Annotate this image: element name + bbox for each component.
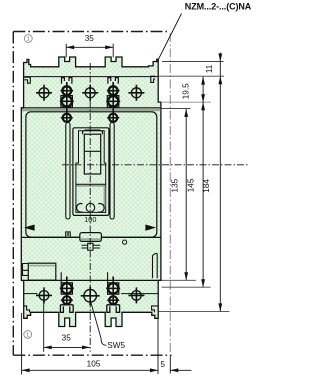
svg-text:105: 105: [87, 359, 101, 368]
top clamp bracket pole gap 1: [62, 78, 72, 84]
svg-text:135: 135: [170, 178, 179, 192]
escutcheon window bottom line: [76, 183, 106, 185]
terminal shroud edge line top: [24, 76, 159, 78]
extension line L2: [159, 75, 224, 77]
svg-text:35: 35: [85, 34, 95, 43]
svg-text:184: 184: [202, 179, 211, 193]
interlock box pole 2: [80, 233, 102, 242]
step line right of bottom right crosshair: [121, 293, 158, 295]
gray shading under window bottom: [77, 185, 106, 187]
dash-dot envelope border left: [12, 32, 14, 356]
escutcheon left rail: [66, 123, 70, 220]
dimension 19.5 and 145 vertical: [182, 77, 206, 288]
raised terminal shroud block left: [28, 263, 56, 280]
dimension 105 bottom: [22, 313, 158, 375]
step line left of bottom left crosshair: [24, 293, 38, 295]
type label NZM: [157, 2, 252, 63]
top terminal bracket right edge: [151, 76, 155, 82]
mounting crosshair pole 2 top: [82, 85, 98, 101]
top clamp bracket pole gap 2: [108, 78, 118, 84]
cover rounded rectangle: [26, 112, 157, 237]
gray shading band under cover step: [22, 109, 160, 111]
gray shading in shroud block: [30, 265, 55, 267]
extension line L4: [162, 279, 197, 281]
gray shading right of lower window: [104, 187, 106, 207]
extension line L6: [159, 310, 230, 312]
dash-dot envelope border bottom: [13, 354, 171, 356]
callout circle 1 bottom: [24, 331, 32, 339]
escutcheon right rail: [110, 123, 114, 220]
dimension 135 vertical: [170, 109, 188, 280]
frame bottom right arc: [98, 204, 104, 213]
clamp column 2 bottom: [106, 272, 120, 312]
lower terminal block top line: [21, 279, 161, 281]
dimension 35 top: [66, 34, 113, 57]
toggle handle mid line: [84, 150, 100, 152]
svg-text:1: 1: [26, 333, 29, 339]
mounting crosshair pole 1 bottom: [36, 287, 52, 303]
funnel terminal SW5 pole 2 bottom: [81, 286, 100, 305]
SW5 label and leader: [91, 302, 126, 350]
gray dash-dot line right side: [169, 33, 171, 355]
cover arrow marking left: [24, 225, 35, 231]
dimension 35 bottom: [44, 301, 90, 352]
padlock tab: [66, 232, 71, 237]
left edge tab boxes: [23, 264, 29, 276]
frame bottom left arc: [77, 204, 83, 213]
pole 2 vertical centerline: [89, 63, 91, 352]
svg-text:1: 1: [27, 37, 30, 43]
toggle handle cap: [83, 130, 103, 134]
toggle handle body: [84, 134, 100, 174]
cover arrow marking right: [145, 225, 156, 231]
raised strip right edge: [153, 254, 158, 279]
extension line L5: [162, 286, 211, 288]
svg-text:5: 5: [160, 360, 165, 369]
extension line L3 gray: [161, 101, 211, 103]
svg-text:19.5: 19.5: [182, 83, 191, 99]
clamp column 2 top screws: [106, 82, 120, 122]
cover bottom line: [21, 236, 161, 238]
gray band inside interlock box: [81, 238, 101, 240]
clamp column 1 bottom: [60, 272, 74, 312]
svg-text:NZM...2-...(C)NA: NZM...2-...(C)NA: [185, 2, 252, 12]
cover top step line: [21, 107, 161, 109]
dimension 5 bottom right: [160, 355, 191, 374]
escutcheon frame inner stepped opening: [76, 131, 106, 213]
breaker case outline: [21, 57, 161, 327]
small circle right of interlock: [123, 240, 127, 244]
mounting crosshair pole 3 bottom: [128, 287, 144, 303]
bottom edge step marks left: [24, 306, 30, 312]
adjustment screw pole 2: [82, 243, 101, 250]
mounting crosshair pole 3 top: [128, 85, 144, 101]
dimension 11 and 184 vertical: [202, 53, 222, 312]
mounting crosshair pole 1 top: [36, 85, 52, 101]
escutcheon frame outer: [73, 128, 109, 216]
dash-dot envelope border top: [13, 31, 167, 33]
callout circle 1 top: [24, 35, 32, 43]
top terminal bracket left edge: [25, 77, 31, 83]
handle horizontal centerline: [62, 164, 248, 166]
svg-text:11: 11: [205, 64, 214, 73]
bottom edge step marks right: [152, 306, 159, 312]
svg-text:35: 35: [62, 333, 72, 342]
extension line L1: [162, 61, 224, 63]
clamp column 1 top screws: [60, 82, 74, 122]
svg-text:SW5: SW5: [107, 341, 125, 350]
frame bottom center circle: [86, 203, 95, 212]
svg-text:145: 145: [186, 178, 195, 192]
extension line L3 cover top: [161, 107, 191, 109]
